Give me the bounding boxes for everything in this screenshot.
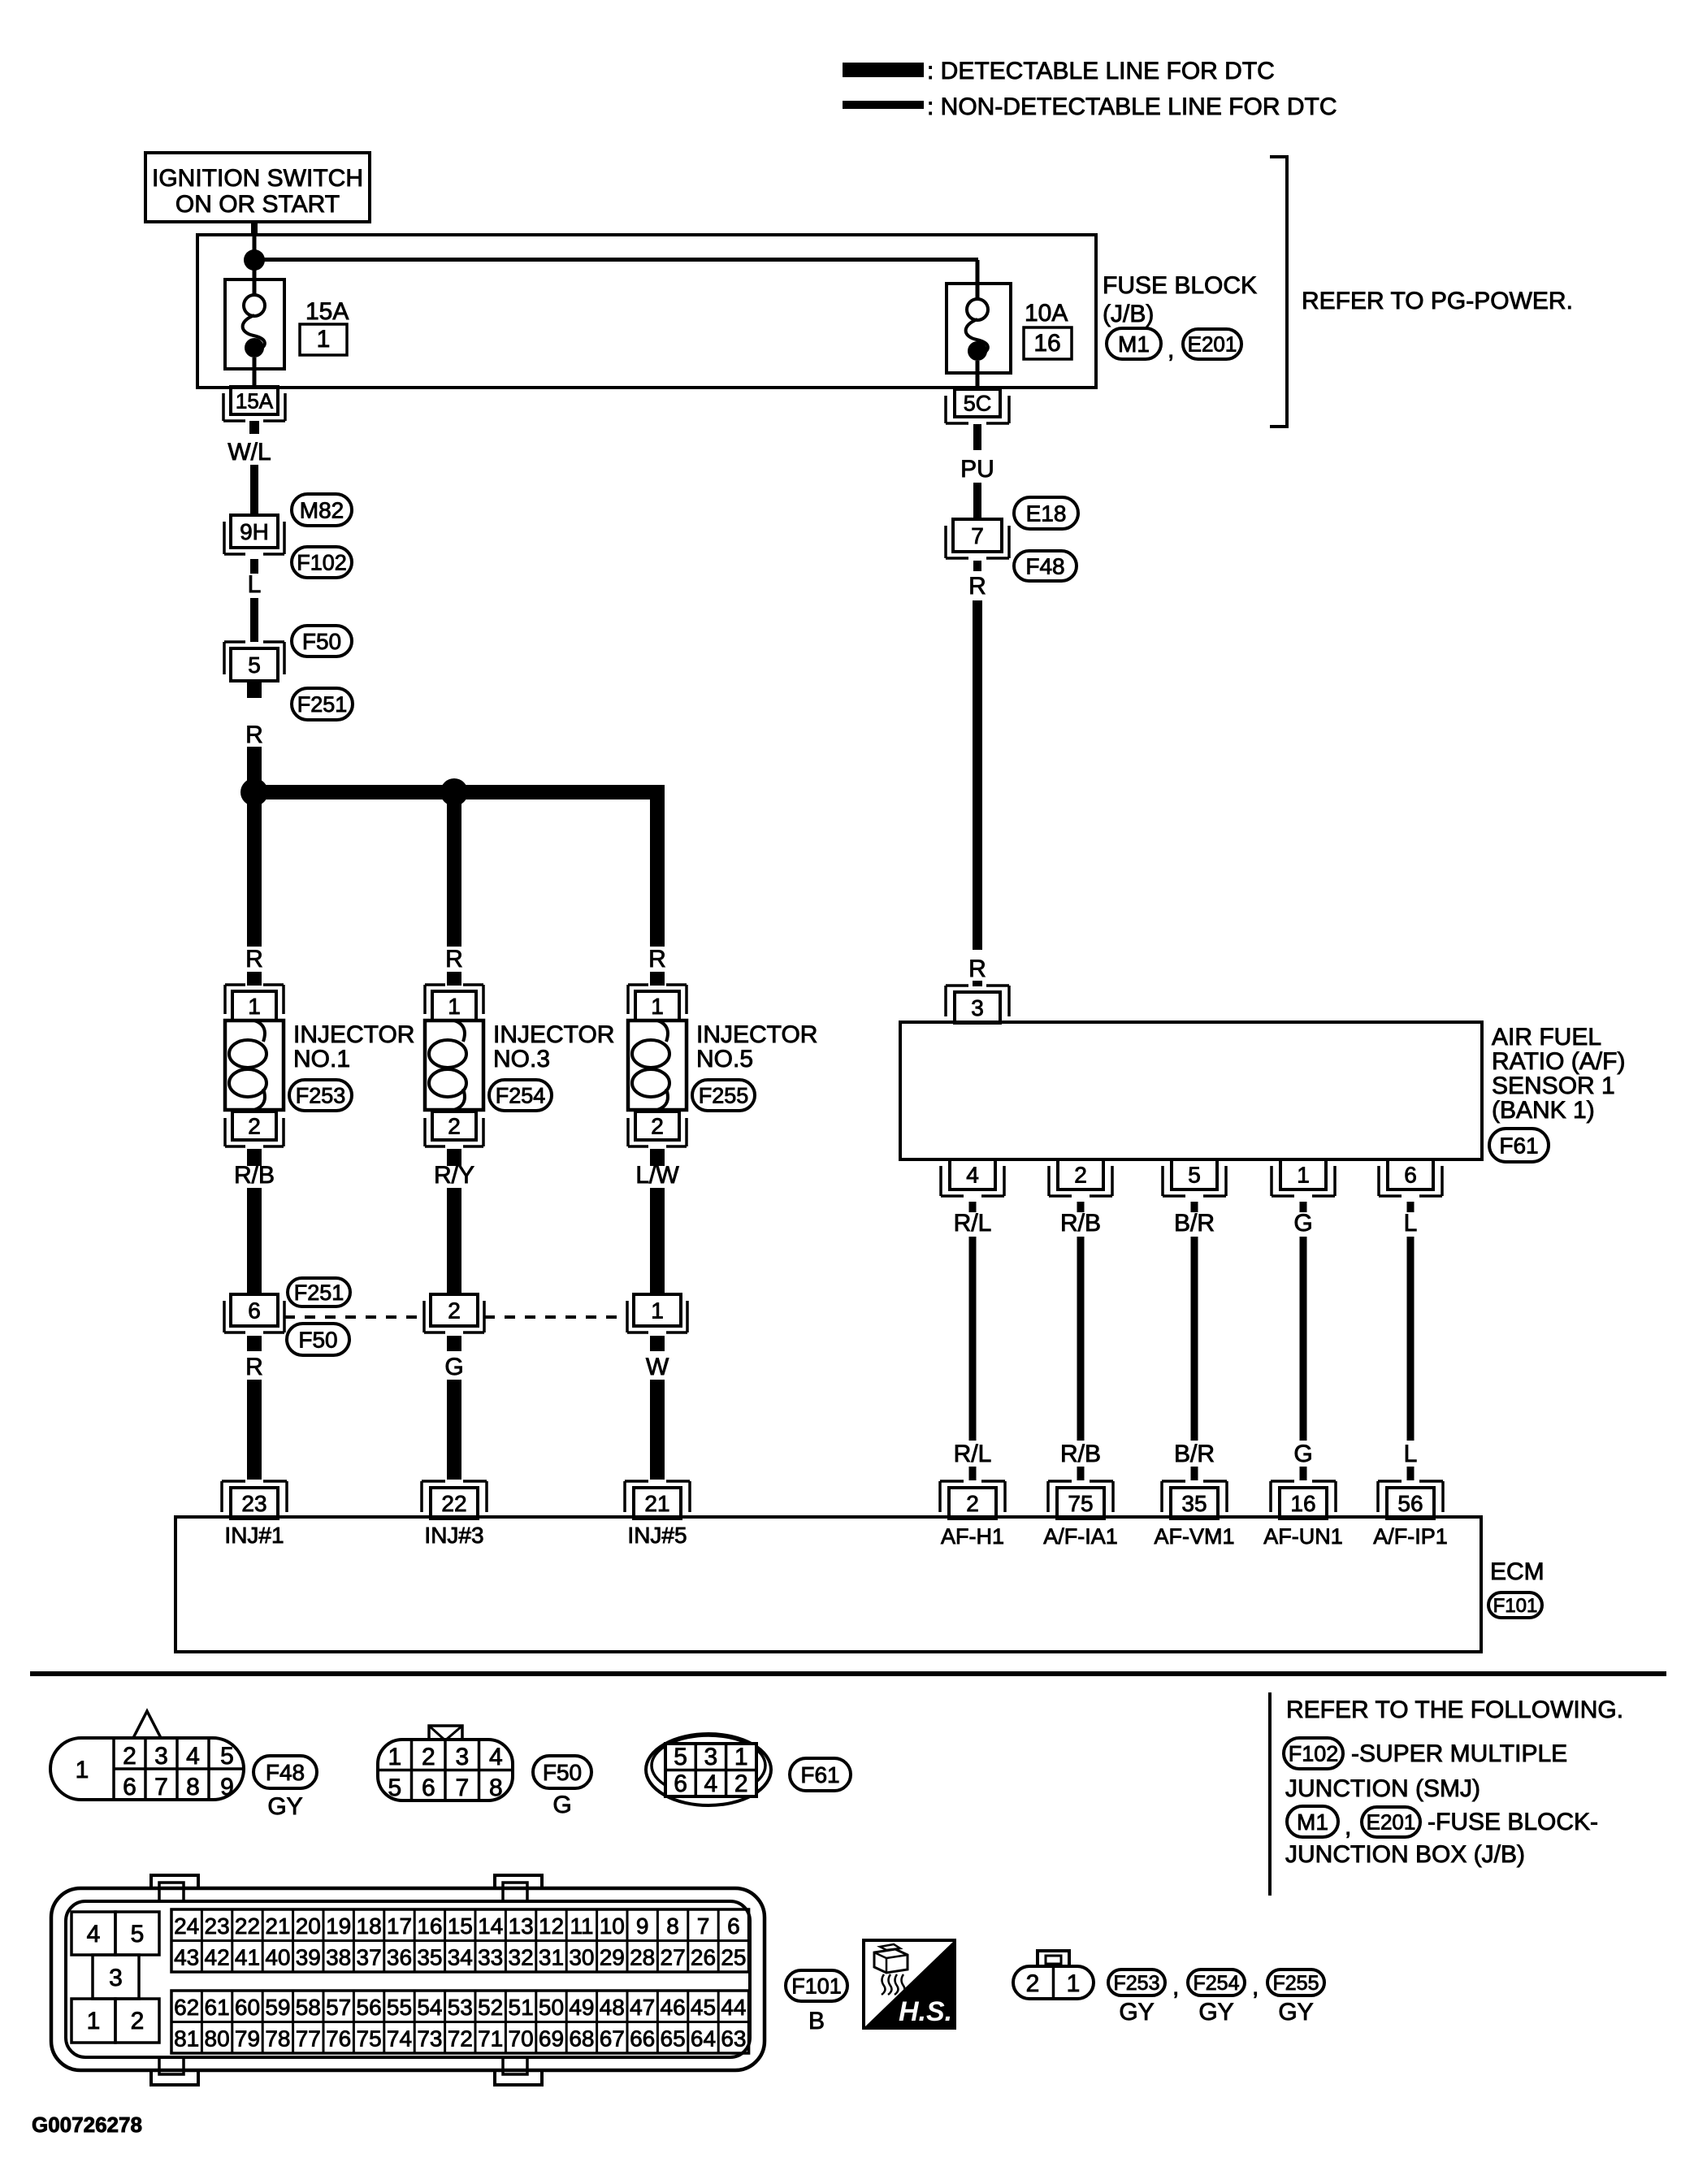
- svg-text:19: 19: [326, 1913, 351, 1939]
- svg-text:45: 45: [691, 1995, 716, 2020]
- svg-text:F254: F254: [1194, 1972, 1240, 1995]
- svg-text:F102: F102: [1289, 1741, 1339, 1766]
- svg-text:37: 37: [357, 1944, 382, 1969]
- svg-text:72: 72: [448, 2026, 473, 2051]
- svg-text:F251: F251: [297, 692, 348, 717]
- svg-text:61: 61: [205, 1995, 230, 2020]
- svg-text:R/L: R/L: [954, 1210, 992, 1237]
- svg-text:4: 4: [186, 1743, 200, 1770]
- svg-text:62: 62: [174, 1995, 199, 2020]
- svg-text:INJECTOR: INJECTOR: [493, 1021, 614, 1048]
- svg-text:22: 22: [441, 1491, 466, 1516]
- svg-text:NO.3: NO.3: [493, 1046, 550, 1072]
- svg-text:13: 13: [509, 1913, 534, 1939]
- svg-text:6: 6: [248, 1298, 261, 1324]
- svg-text:E201: E201: [1367, 1810, 1416, 1835]
- svg-text:47: 47: [630, 1995, 655, 2020]
- svg-text:R: R: [245, 721, 263, 748]
- svg-text:1: 1: [651, 994, 664, 1019]
- svg-text:54: 54: [417, 1995, 442, 2020]
- svg-text:7: 7: [971, 523, 984, 548]
- svg-text:B/R: B/R: [1174, 1441, 1215, 1467]
- svg-text:29: 29: [600, 1944, 625, 1969]
- svg-text:1: 1: [651, 1298, 664, 1324]
- svg-text:REFER TO PG-POWER.: REFER TO PG-POWER.: [1302, 288, 1573, 314]
- svg-text:10: 10: [600, 1913, 625, 1939]
- svg-text:75: 75: [357, 2026, 382, 2051]
- svg-text:6: 6: [674, 1770, 687, 1797]
- svg-text:7: 7: [154, 1774, 168, 1800]
- svg-text:70: 70: [509, 2026, 534, 2051]
- svg-text:51: 51: [509, 1995, 534, 2020]
- svg-text:1: 1: [734, 1744, 748, 1770]
- svg-text:65: 65: [661, 2026, 686, 2051]
- svg-text:F61: F61: [800, 1762, 839, 1787]
- svg-text:6: 6: [123, 1774, 136, 1800]
- svg-text:G: G: [444, 1354, 463, 1380]
- svg-text:1: 1: [388, 1744, 401, 1770]
- svg-text:58: 58: [296, 1995, 321, 2020]
- svg-text:59: 59: [265, 1995, 290, 2020]
- svg-text:4: 4: [489, 1744, 503, 1770]
- svg-text:JUNCTION (SMJ): JUNCTION (SMJ): [1285, 1775, 1480, 1802]
- svg-text:-SUPER MULTIPLE: -SUPER MULTIPLE: [1351, 1740, 1567, 1767]
- svg-text:39: 39: [296, 1944, 321, 1969]
- svg-text:5: 5: [388, 1774, 401, 1801]
- svg-text:2: 2: [1074, 1163, 1087, 1188]
- svg-text:2: 2: [448, 1298, 461, 1324]
- svg-text:6: 6: [422, 1774, 435, 1801]
- svg-text:48: 48: [600, 1995, 625, 2020]
- svg-text:F102: F102: [297, 550, 347, 574]
- svg-text:R: R: [245, 1354, 263, 1380]
- svg-text:3: 3: [455, 1744, 469, 1770]
- svg-text:46: 46: [661, 1995, 686, 2020]
- svg-text:R/Y: R/Y: [434, 1162, 474, 1189]
- svg-text:26: 26: [691, 1944, 716, 1969]
- svg-text:W: W: [646, 1354, 669, 1380]
- svg-text:1: 1: [1067, 1970, 1081, 1997]
- svg-text:5: 5: [248, 652, 261, 678]
- svg-text:RATIO (A/F): RATIO (A/F): [1492, 1048, 1625, 1075]
- svg-text:4: 4: [87, 1921, 101, 1948]
- svg-text:66: 66: [630, 2026, 655, 2051]
- svg-text:44: 44: [721, 1995, 746, 2020]
- svg-text:F50: F50: [543, 1760, 582, 1785]
- svg-text:56: 56: [1397, 1491, 1423, 1516]
- svg-text:71: 71: [478, 2026, 503, 2051]
- svg-text:L: L: [248, 571, 262, 598]
- svg-text:64: 64: [691, 2026, 716, 2051]
- svg-text:1: 1: [87, 2008, 101, 2034]
- svg-text:E201: E201: [1188, 332, 1237, 357]
- svg-text:53: 53: [448, 1995, 473, 2020]
- svg-text:7: 7: [455, 1774, 469, 1801]
- svg-text:3: 3: [971, 995, 984, 1020]
- svg-text:35: 35: [417, 1944, 442, 1969]
- svg-text:79: 79: [235, 2026, 260, 2051]
- svg-text:4: 4: [704, 1770, 718, 1797]
- svg-text:11: 11: [570, 1913, 593, 1939]
- svg-text:REFER TO THE FOLLOWING.: REFER TO THE FOLLOWING.: [1286, 1696, 1623, 1723]
- svg-text:6: 6: [727, 1913, 740, 1939]
- svg-text:NO.5: NO.5: [696, 1046, 753, 1072]
- svg-text:67: 67: [600, 2026, 625, 2051]
- svg-text:9: 9: [636, 1913, 649, 1939]
- svg-text:AF-UN1: AF-UN1: [1263, 1524, 1343, 1549]
- svg-text:1: 1: [76, 1757, 89, 1783]
- svg-text:SENSOR 1: SENSOR 1: [1492, 1072, 1615, 1099]
- svg-text:G: G: [1293, 1441, 1312, 1467]
- svg-text:8: 8: [186, 1774, 200, 1800]
- svg-text:2: 2: [734, 1770, 748, 1797]
- svg-text:2: 2: [248, 1114, 261, 1139]
- svg-text:73: 73: [417, 2026, 442, 2051]
- svg-text:12: 12: [539, 1913, 564, 1939]
- svg-text:F253: F253: [296, 1083, 346, 1107]
- svg-text:H.S.: H.S.: [899, 1996, 952, 2027]
- svg-text:50: 50: [539, 1995, 564, 2020]
- svg-text:R/B: R/B: [1060, 1441, 1101, 1467]
- svg-text:8: 8: [666, 1913, 679, 1939]
- svg-text:6: 6: [1404, 1163, 1417, 1188]
- svg-text:30: 30: [569, 1944, 594, 1969]
- svg-text:5: 5: [220, 1743, 234, 1770]
- svg-text:R: R: [968, 573, 986, 600]
- svg-text:2: 2: [448, 1114, 461, 1139]
- svg-text:4: 4: [966, 1163, 979, 1188]
- svg-text:ON OR START: ON OR START: [175, 191, 340, 218]
- svg-text:AF-H1: AF-H1: [941, 1524, 1004, 1549]
- svg-text:7: 7: [697, 1913, 710, 1939]
- svg-text:PU: PU: [960, 456, 994, 483]
- svg-text:1: 1: [317, 326, 331, 353]
- svg-text:31: 31: [539, 1944, 564, 1969]
- svg-text:R: R: [245, 946, 263, 973]
- svg-text:69: 69: [539, 2026, 564, 2051]
- svg-text:NO.1: NO.1: [293, 1046, 350, 1072]
- svg-text:2: 2: [123, 1743, 136, 1770]
- svg-text:INJ#1: INJ#1: [224, 1523, 284, 1548]
- svg-text:R: R: [968, 955, 986, 982]
- svg-text:M1: M1: [1118, 331, 1150, 357]
- svg-text:GY: GY: [1198, 1999, 1233, 2026]
- svg-text:INJECTOR: INJECTOR: [696, 1021, 817, 1048]
- svg-text:2: 2: [966, 1491, 979, 1516]
- svg-text:IGNITION SWITCH: IGNITION SWITCH: [152, 165, 363, 192]
- svg-text:16: 16: [417, 1913, 442, 1939]
- svg-text:,: ,: [1168, 336, 1174, 363]
- svg-text:,: ,: [1252, 1974, 1259, 2000]
- svg-text:14: 14: [478, 1913, 503, 1939]
- svg-text:F251: F251: [294, 1280, 344, 1305]
- svg-text:B/R: B/R: [1174, 1210, 1215, 1237]
- svg-text:25: 25: [721, 1944, 746, 1969]
- svg-text:F50: F50: [302, 629, 341, 654]
- svg-text:68: 68: [569, 2026, 594, 2051]
- svg-text:INJ#3: INJ#3: [424, 1523, 483, 1548]
- svg-text:56: 56: [357, 1995, 382, 2020]
- svg-text:40: 40: [265, 1944, 290, 1969]
- svg-text:21: 21: [644, 1491, 669, 1516]
- svg-text:AIR FUEL: AIR FUEL: [1492, 1024, 1601, 1051]
- svg-text:G: G: [552, 1792, 571, 1818]
- svg-text:ECM: ECM: [1490, 1558, 1545, 1585]
- svg-text:R/L: R/L: [954, 1441, 992, 1467]
- svg-text:2: 2: [651, 1114, 664, 1139]
- svg-text:F50: F50: [298, 1327, 337, 1352]
- svg-text:INJ#5: INJ#5: [627, 1523, 687, 1548]
- svg-text:15: 15: [448, 1913, 473, 1939]
- svg-text:F254: F254: [496, 1083, 546, 1107]
- svg-text:A/F-IA1: A/F-IA1: [1043, 1524, 1118, 1549]
- svg-text:W/L: W/L: [227, 439, 271, 466]
- svg-text:M1: M1: [1297, 1809, 1328, 1835]
- svg-text:JUNCTION BOX (J/B): JUNCTION BOX (J/B): [1285, 1841, 1525, 1868]
- svg-text:F48: F48: [266, 1760, 305, 1785]
- svg-text:AF-VM1: AF-VM1: [1154, 1524, 1234, 1549]
- svg-text:23: 23: [205, 1913, 230, 1939]
- svg-text:10A: 10A: [1025, 300, 1068, 327]
- svg-text:R/B: R/B: [234, 1162, 275, 1189]
- svg-text:20: 20: [296, 1913, 321, 1939]
- svg-text:F255: F255: [699, 1083, 749, 1107]
- svg-text:33: 33: [478, 1944, 503, 1969]
- svg-text:21: 21: [265, 1913, 290, 1939]
- svg-text:2: 2: [1026, 1970, 1040, 1997]
- svg-text:5C: 5C: [964, 392, 992, 416]
- svg-text:17: 17: [387, 1913, 412, 1939]
- svg-text:78: 78: [265, 2026, 290, 2051]
- svg-text:1: 1: [448, 994, 461, 1019]
- svg-text:3: 3: [109, 1965, 123, 1991]
- svg-text:,: ,: [1345, 1813, 1351, 1840]
- svg-text:77: 77: [296, 2026, 321, 2051]
- svg-text:41: 41: [235, 1944, 260, 1969]
- svg-text:49: 49: [569, 1995, 594, 2020]
- svg-text:: DETECTABLE LINE FOR DTC: : DETECTABLE LINE FOR DTC: [927, 58, 1275, 84]
- svg-text:23: 23: [241, 1491, 266, 1516]
- svg-text:(BANK 1): (BANK 1): [1492, 1097, 1595, 1124]
- svg-text:F48: F48: [1025, 553, 1064, 578]
- svg-text:63: 63: [721, 2026, 746, 2051]
- svg-text:76: 76: [326, 2026, 351, 2051]
- svg-text:G: G: [1293, 1210, 1312, 1237]
- svg-text:24: 24: [174, 1913, 199, 1939]
- svg-text:3: 3: [704, 1744, 718, 1770]
- svg-text:57: 57: [326, 1995, 351, 2020]
- svg-text:5: 5: [1188, 1163, 1201, 1188]
- svg-text:28: 28: [630, 1944, 655, 1969]
- svg-text:42: 42: [205, 1944, 230, 1969]
- svg-text:2: 2: [422, 1744, 435, 1770]
- svg-text:,: ,: [1172, 1974, 1179, 2000]
- svg-text:L: L: [1404, 1210, 1418, 1237]
- svg-text:G00726278: G00726278: [32, 2112, 142, 2137]
- svg-text:52: 52: [478, 1995, 503, 2020]
- svg-text:9H: 9H: [240, 519, 269, 544]
- svg-text:INJECTOR: INJECTOR: [293, 1021, 414, 1048]
- svg-text:L/W: L/W: [635, 1162, 679, 1189]
- svg-text:R/B: R/B: [1060, 1210, 1101, 1237]
- svg-text:GY: GY: [1278, 1999, 1313, 2026]
- svg-text:R: R: [445, 946, 463, 973]
- svg-text:F61: F61: [1499, 1133, 1538, 1158]
- svg-text:(J/B): (J/B): [1103, 301, 1154, 327]
- svg-text:9: 9: [220, 1774, 234, 1800]
- svg-text:36: 36: [387, 1944, 412, 1969]
- svg-text:16: 16: [1033, 330, 1060, 357]
- svg-text:80: 80: [205, 2026, 230, 2051]
- svg-text:8: 8: [489, 1774, 503, 1801]
- svg-text:15A: 15A: [236, 388, 274, 413]
- svg-text:18: 18: [357, 1913, 382, 1939]
- svg-text:27: 27: [661, 1944, 686, 1969]
- svg-text:60: 60: [235, 1995, 260, 2020]
- svg-text:2: 2: [131, 2008, 145, 2034]
- svg-text:B: B: [808, 2008, 825, 2034]
- svg-text:GY: GY: [267, 1793, 302, 1820]
- svg-text:E18: E18: [1026, 500, 1067, 526]
- svg-text:3: 3: [154, 1743, 168, 1770]
- svg-text:32: 32: [509, 1944, 534, 1969]
- svg-text:5: 5: [131, 1921, 145, 1948]
- svg-text:34: 34: [448, 1944, 473, 1969]
- svg-text:38: 38: [326, 1944, 351, 1969]
- svg-text:15A: 15A: [305, 298, 349, 325]
- svg-text:16: 16: [1290, 1491, 1315, 1516]
- svg-text:: NON-DETECTABLE LINE FOR DTC: : NON-DETECTABLE LINE FOR DTC: [927, 93, 1337, 120]
- svg-text:M82: M82: [300, 497, 344, 522]
- svg-text:1: 1: [248, 994, 261, 1019]
- svg-text:F101: F101: [791, 1974, 842, 1998]
- svg-text:35: 35: [1181, 1491, 1207, 1516]
- svg-text:1: 1: [1297, 1163, 1310, 1188]
- svg-text:F255: F255: [1273, 1972, 1319, 1995]
- svg-text:L: L: [1404, 1441, 1418, 1467]
- svg-text:22: 22: [235, 1913, 260, 1939]
- svg-text:43: 43: [174, 1944, 199, 1969]
- svg-text:74: 74: [387, 2026, 412, 2051]
- svg-text:81: 81: [174, 2026, 199, 2051]
- svg-text:A/F-IP1: A/F-IP1: [1373, 1524, 1448, 1549]
- svg-text:5: 5: [674, 1744, 687, 1770]
- svg-text:F101: F101: [1493, 1595, 1538, 1617]
- svg-text:F253: F253: [1114, 1972, 1160, 1995]
- svg-text:55: 55: [387, 1995, 412, 2020]
- svg-text:R: R: [648, 946, 666, 973]
- svg-text:75: 75: [1068, 1491, 1093, 1516]
- svg-text:-FUSE BLOCK-: -FUSE BLOCK-: [1428, 1809, 1598, 1835]
- svg-text:GY: GY: [1119, 1999, 1154, 2026]
- svg-text:FUSE BLOCK: FUSE BLOCK: [1103, 272, 1257, 299]
